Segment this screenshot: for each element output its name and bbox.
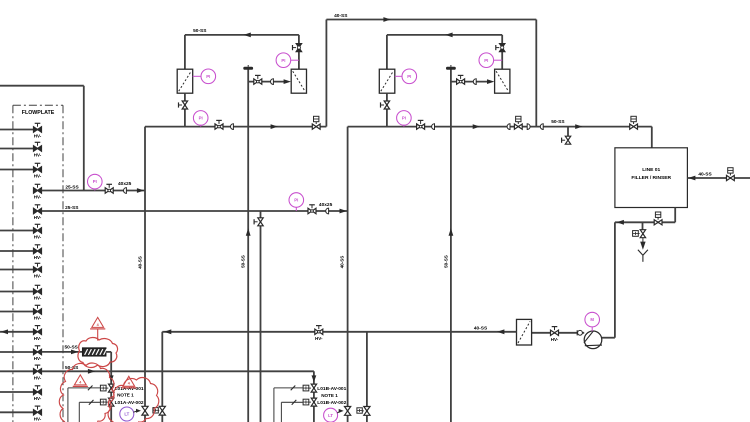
valve on return drop bottom unit A xyxy=(159,406,165,415)
wire drop to L01A AV valves xyxy=(110,371,112,422)
reducer on 25-SS row 5 xyxy=(326,208,329,215)
svg-text:L01B-AV-002: L01B-AV-002 xyxy=(317,400,346,406)
svg-text:50-SS: 50-SS xyxy=(65,365,79,371)
solenoid box L01B-AV-001 xyxy=(303,385,309,391)
wire 40-SS feed from right edge xyxy=(687,177,750,179)
wire return branch leg unit 2 (x=366.9) xyxy=(366,332,368,422)
svg-text:PI: PI xyxy=(281,58,285,63)
wire filler drain header xyxy=(615,221,675,223)
wire stub into hand valve HV row 9 xyxy=(0,291,33,293)
hand valve HV- row 9 xyxy=(34,289,42,294)
hand valve HV- row 15 xyxy=(34,410,42,415)
svg-text:PI: PI xyxy=(484,58,488,63)
arrow left on filler drain header xyxy=(617,220,624,225)
hand valve HV- row 4 xyxy=(34,188,42,193)
wire down leg to filter F1b xyxy=(298,35,300,69)
hand valve HV- row 8 xyxy=(34,267,42,272)
solenoid box at sample valve xyxy=(633,231,639,237)
svg-text:HV-: HV- xyxy=(34,174,42,179)
wire filter F1a drain leg xyxy=(184,93,186,126)
arrow into filter F2b xyxy=(487,79,494,84)
wire stub into hand valve HV row 2 xyxy=(0,148,33,150)
wire 50-SS AV feed line xyxy=(42,370,314,372)
arrow up on 50-SS riser unit 1 xyxy=(246,228,251,235)
solenoid box L01A-AV-001 xyxy=(100,385,106,391)
hand valve on pump discharge xyxy=(551,330,559,335)
arrow left on 50-SS top header unit 1 xyxy=(243,33,250,38)
svg-text:FLOWPLATE: FLOWPLATE xyxy=(22,110,55,116)
arrow on unit 2 header xyxy=(473,124,480,129)
instrument PI on 25-SS row 4 xyxy=(88,174,103,189)
wire unit 2 header drain stub xyxy=(567,127,569,136)
instrument LT unit A xyxy=(120,407,134,421)
arrow into 40-SS riser row 4 xyxy=(137,188,144,193)
check valve on unit 2 header xyxy=(432,123,435,130)
wire pump suction xyxy=(602,337,615,339)
instrument LT unit B xyxy=(324,408,338,422)
svg-text:25-SS: 25-SS xyxy=(65,205,79,211)
svg-text:50-SS: 50-SS xyxy=(443,255,448,268)
svg-text:PI: PI xyxy=(206,74,210,79)
funnel drain symbol xyxy=(638,250,643,256)
instrument PI on 25-SS row 5 xyxy=(289,193,304,208)
signal line L01A-AV-002 xyxy=(79,401,100,403)
arrow left on 50-SS top header unit 2 xyxy=(445,33,452,38)
hand valve HV- row 5 xyxy=(34,208,42,213)
wire drain drop to pump xyxy=(614,222,616,337)
wire 40-SS drop to unit 2 xyxy=(535,20,537,127)
hand valve HV- row 12 xyxy=(34,349,42,354)
wire static mixer outlet xyxy=(106,351,111,353)
arrow into 40-SS riser unit 2 xyxy=(340,209,347,214)
wire stub into hand valve HV row 8 xyxy=(0,269,33,271)
reducer at pump discharge xyxy=(578,330,583,335)
arrow left on return line left xyxy=(164,329,171,334)
hand valve HV- row 1 xyxy=(34,127,42,132)
valve above filter F1b xyxy=(296,44,301,52)
pipe cap on 50-SS riser unit 1 xyxy=(243,67,253,70)
static mixer hatched element xyxy=(83,348,106,356)
wire drop into filler box xyxy=(651,127,653,148)
wire 50-SS top header unit 1 xyxy=(185,34,299,36)
svg-text:40-SS: 40-SS xyxy=(334,13,348,19)
instrument PI above filter F1b xyxy=(276,53,291,68)
instrument M motor above pump xyxy=(585,312,600,327)
wire sample branch below drain header xyxy=(642,222,644,229)
hand valve HV- row 13 xyxy=(34,369,42,374)
arrow right on 40-SS top header xyxy=(383,17,390,22)
arrow right on AV feed line xyxy=(88,369,95,374)
hand valve HV- row 6 xyxy=(34,228,42,233)
control valve at filler inlet xyxy=(630,124,638,129)
valve on unit 2 header xyxy=(417,124,425,129)
wire filler box bottom outlet xyxy=(674,208,676,223)
svg-text:HV-: HV- xyxy=(34,296,42,301)
wire stub into hand valve HV row 15 xyxy=(0,411,33,413)
svg-text:NOTE 1: NOTE 1 xyxy=(117,393,134,398)
svg-text:M: M xyxy=(590,317,594,322)
revision cloud around L01A AV labels xyxy=(108,378,159,422)
wire below sample valve xyxy=(642,238,644,243)
hand valve HV- on return line xyxy=(315,329,323,334)
control valve on unit 1 header outlet xyxy=(312,124,320,129)
instrument PI at filter F1a xyxy=(193,75,202,77)
hand valve HV- row 14 xyxy=(34,389,42,394)
valve on drain leg unit 1 xyxy=(258,218,263,226)
wire stub into hand valve HV row 10 xyxy=(0,311,33,313)
wire stub into hand valve HV row 14 xyxy=(0,391,33,393)
valve on filter F1a drain xyxy=(182,101,187,109)
svg-text:HV-: HV- xyxy=(34,396,42,401)
wire 50-SS riser unit 1 (x=248.2) xyxy=(247,69,249,422)
revision triangle leader line xyxy=(97,329,99,341)
valve on unit 1 header xyxy=(215,124,223,129)
wire unit 2 inlet header xyxy=(348,126,652,128)
reducer after 40-SS junction xyxy=(540,123,543,130)
return filter F3 xyxy=(517,319,532,345)
check valve on branch to F2b xyxy=(473,78,476,85)
svg-text:HV-: HV- xyxy=(34,235,42,240)
valve on branch to F2b xyxy=(457,79,465,84)
wire down leg to filter F2b xyxy=(501,35,503,69)
svg-text:L01A-AV-002: L01A-AV-002 xyxy=(115,400,144,406)
solenoid box on return branch valve unit B xyxy=(357,408,362,413)
valve L01B-AV-001 xyxy=(311,384,316,392)
svg-text:40x25: 40x25 xyxy=(118,181,132,187)
svg-text:HV-: HV- xyxy=(551,337,559,342)
svg-text:HV-: HV- xyxy=(34,376,42,381)
sample valve xyxy=(640,230,645,238)
wire stub into hand valve HV row 1 xyxy=(0,129,33,131)
wire 25-SS line from HV row 4 xyxy=(42,190,145,192)
wire 40-SS return line xyxy=(162,331,516,333)
flowplate enclosure left dashed line xyxy=(12,105,14,422)
wire stub into hand valve HV row 13 xyxy=(0,370,33,372)
signal line L01A-AV-001 xyxy=(68,387,101,389)
solenoid box on return drop valve unit A xyxy=(153,408,158,413)
svg-text:PI: PI xyxy=(294,198,298,203)
arrow down into L01B AV train xyxy=(312,375,317,382)
arrow right toward filler xyxy=(575,124,582,129)
check valve on branch to F1b xyxy=(271,78,274,85)
wire unit 1 inlet header xyxy=(145,126,326,128)
wire 40-SS riser unit 2 (x=347.6) xyxy=(347,127,349,422)
drain valve below unit 2 header xyxy=(565,136,570,144)
wire stub into hand valve HV row 6 xyxy=(0,230,33,232)
svg-text:50-SS: 50-SS xyxy=(193,28,207,34)
svg-text:PI: PI xyxy=(402,116,406,121)
instrument PI on unit 2 header xyxy=(397,111,412,126)
wire drop to L01B AV valves xyxy=(313,371,315,422)
reducer on 25-SS row 4 xyxy=(124,187,127,194)
svg-text:LINE 01: LINE 01 xyxy=(642,167,660,173)
wire 50-SS riser unit 2 (x=450.9) xyxy=(450,69,452,422)
svg-text:HV-: HV- xyxy=(34,134,42,139)
wire drain leg unit 1 (x=260.5) xyxy=(260,211,262,422)
svg-text:40-SS: 40-SS xyxy=(137,256,142,269)
wire filter F2a drain leg xyxy=(386,93,388,126)
flowplate enclosure top dashed line xyxy=(13,104,63,106)
valve above filter F2b xyxy=(500,44,505,52)
reducer after unit 2 control valve xyxy=(527,123,530,130)
svg-text:NOTE 1: NOTE 1 xyxy=(321,393,338,398)
svg-text:HV-: HV- xyxy=(34,215,42,220)
filter F1a xyxy=(177,69,193,93)
wire stub into hand valve HV row 3 xyxy=(0,169,33,171)
wire branch 50-SS riser to filter F2b xyxy=(451,81,487,83)
instrument PI above filter F2b xyxy=(479,53,494,68)
revision cloud around static mixer xyxy=(78,337,118,367)
svg-text:HV-: HV- xyxy=(34,274,42,279)
svg-text:40-SS: 40-SS xyxy=(698,172,712,178)
svg-text:PI: PI xyxy=(199,116,203,121)
svg-text:50-SS: 50-SS xyxy=(551,119,565,125)
wire 25-SS line from HV row 5 xyxy=(42,210,348,212)
svg-text:L01B-AV-001: L01B-AV-001 xyxy=(317,386,346,392)
filter F1b xyxy=(291,69,306,93)
valve L01A-AV-001 xyxy=(109,384,114,392)
arrow into filler box right side xyxy=(688,176,695,181)
arrow up on 50-SS riser unit 2 xyxy=(449,228,454,235)
svg-text:HV-: HV- xyxy=(34,316,42,321)
pipe cap on 50-SS riser unit 2 xyxy=(446,67,456,70)
wire stub into hand valve HV row 7 xyxy=(0,250,33,252)
arrow LT to riser valve unit B xyxy=(337,411,340,413)
svg-text:HV-: HV- xyxy=(34,195,42,200)
instrument PI at filter F2a xyxy=(395,75,402,77)
wire unit 1 riser to 50-SS top header xyxy=(184,35,186,69)
control valve on right 40-SS feed xyxy=(727,175,735,180)
arrow down at sample point xyxy=(640,242,645,250)
arrow into static mixer xyxy=(71,350,78,355)
arrow left on return line at left edge xyxy=(1,329,8,334)
revision triangle in cloud unit A xyxy=(74,375,86,385)
svg-text:25-SS: 25-SS xyxy=(65,184,79,190)
wire 40-SS riser unit 1 (x=145) xyxy=(144,127,146,422)
flowplate enclosure right dashed line xyxy=(62,105,64,422)
wire 50-SS top header unit 2 xyxy=(387,34,502,36)
solenoid box L01A-AV-002 xyxy=(100,399,106,405)
svg-text:50-SS: 50-SS xyxy=(241,255,246,268)
wire top-left feed down leg xyxy=(83,86,85,191)
svg-text:PI: PI xyxy=(93,179,97,184)
wire 50-SS to static mixer xyxy=(42,351,83,353)
filter F2a xyxy=(379,69,395,93)
revision triangle above static mixer xyxy=(92,317,104,327)
hand valve HV- row 3 xyxy=(34,167,42,172)
valve on branch to F1b xyxy=(254,79,262,84)
valve on 25-SS row 4 xyxy=(105,188,113,193)
wire top-left feed header xyxy=(0,85,84,87)
hand valve HV- row 11 xyxy=(34,329,42,334)
pump P1 xyxy=(584,331,602,349)
wire stub into hand valve HV row 11 xyxy=(0,331,33,333)
hand valve HV- row 7 xyxy=(34,248,42,253)
wire stub into hand valve HV row 12 xyxy=(0,351,33,353)
svg-text:HV-: HV- xyxy=(315,336,323,341)
arrow left on return line right xyxy=(497,329,504,334)
instrument PI on unit 1 header xyxy=(193,111,208,126)
solenoid box L01B-AV-002 xyxy=(303,399,309,405)
svg-text:LT: LT xyxy=(328,413,333,418)
valve L01B-AV-002 xyxy=(311,398,316,406)
svg-text:HV-: HV- xyxy=(34,336,42,341)
check valve on unit 1 header xyxy=(231,123,234,130)
svg-text:PI: PI xyxy=(407,74,411,79)
svg-text:HV-: HV- xyxy=(34,255,42,260)
wire mixer outlet drop xyxy=(110,352,112,371)
control valve on unit 2 header xyxy=(514,124,522,129)
signal line L01B-AV-002 xyxy=(281,401,303,403)
wire unit 2 riser to 50-SS top header xyxy=(386,35,388,69)
svg-text:HV-: HV- xyxy=(34,356,42,361)
reducer before unit 2 control valve xyxy=(507,123,510,130)
hand valve HV- row 2 xyxy=(34,146,42,151)
equipment box LINE 01 FILLER/RINSER xyxy=(615,148,688,208)
control valve on filler drain header xyxy=(654,220,662,225)
svg-text:LT: LT xyxy=(124,412,129,417)
svg-text:40-SS: 40-SS xyxy=(474,326,488,332)
arrow on unit 1 header xyxy=(271,124,278,129)
arrow down into L01A AV train xyxy=(109,375,114,382)
wire 40-SS top header xyxy=(326,19,536,21)
wire pump discharge xyxy=(532,332,585,334)
revision triangle above L01A-AV-001 xyxy=(123,376,135,386)
valve L01A-AV-002 xyxy=(109,398,114,406)
valve on 40-SS riser bottom unit A xyxy=(142,406,148,415)
filter F2b xyxy=(495,69,510,93)
valve on 40-SS riser bottom unit B xyxy=(345,407,351,416)
svg-text:FILLER / RINSER: FILLER / RINSER xyxy=(631,175,671,181)
svg-text:40-SS: 40-SS xyxy=(340,256,345,269)
svg-text:HV-: HV- xyxy=(34,417,42,422)
svg-text:HV-: HV- xyxy=(34,153,42,158)
arrow LT to riser valve unit A xyxy=(133,411,137,412)
valve on 25-SS row 5 xyxy=(308,208,316,213)
valve on return branch bottom unit B xyxy=(364,407,370,416)
wire branch 50-SS riser to filter F1b xyxy=(248,81,284,83)
svg-text:40x25: 40x25 xyxy=(319,202,333,208)
hand valve HV- row 10 xyxy=(34,309,42,314)
wire return drop leg unit 1 (x=162.3) xyxy=(161,332,163,422)
signal line L01B-AV-001 xyxy=(274,387,303,389)
arrow into filter F1b xyxy=(284,79,291,84)
revision cloud around L01A AV train xyxy=(59,363,114,422)
valve on filter F2a drain xyxy=(384,101,389,109)
wire unit 1 outlet riser xyxy=(325,20,327,127)
